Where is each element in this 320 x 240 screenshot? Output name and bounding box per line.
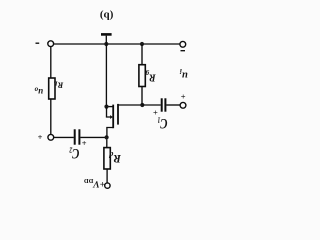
transistor Q channel bar [112,105,114,129]
label minus output [36,42,40,44]
resistor Rg [139,65,145,87]
wire C1 right [166,104,180,106]
svg-text:(b): (b) [100,10,114,22]
terminal input minus [180,41,186,47]
wire drain vertical [107,128,114,138]
wire C1 left [142,104,161,106]
wire gate lead [119,104,143,106]
svg-text:C2: C2 [69,145,79,163]
transistor Q body lead [107,107,111,117]
wire Rg bottom [141,87,143,106]
wire RL bottom [50,99,52,134]
wire Rd bottom [106,169,108,183]
node ground junction [104,42,108,46]
svg-text:+: + [38,132,43,142]
terminal VDD [105,183,110,188]
svg-text:Rg: Rg [145,70,157,83]
svg-text:C1: C1 [157,115,167,133]
terminal output plus [48,134,54,140]
terminal input plus [180,102,186,108]
svg-text:uo: uo [34,86,43,98]
wire top rail [54,43,180,45]
wire Rg top [141,44,143,65]
svg-text:+VDD: +VDD [84,178,105,189]
svg-text:ui: ui [179,68,188,81]
node Rg junction on rail [140,42,144,46]
capacitor C2 [74,129,76,144]
transistor Q body arrow [110,115,113,119]
node gate [140,103,144,107]
node drain [105,135,109,139]
transistor Q gate bar [117,104,119,125]
svg-text:+: + [82,138,87,148]
terminal output minus [48,41,54,47]
wire C2 right [80,136,106,138]
transistor Q source lead [107,106,114,108]
wire source to rail [105,44,107,107]
svg-text:+: + [153,108,158,118]
node source [104,105,108,109]
wire C2 left [54,136,74,138]
resistor Rd [104,148,110,169]
wire Rd top [106,140,108,148]
label minus input [181,50,186,52]
svg-text:+: + [181,92,186,102]
wire RL top [50,47,52,78]
ground [105,36,107,44]
resistor RL [49,78,55,99]
capacitor C1 [161,98,163,111]
